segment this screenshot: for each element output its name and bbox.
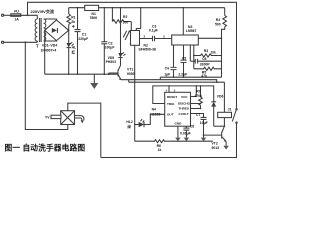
svg-text:SFH506-38: SFH506-38: [139, 47, 156, 51]
svg-text:2: 2: [144, 34, 146, 38]
svg-text:YV: YV: [45, 116, 50, 120]
svg-text:HL: HL: [72, 45, 77, 49]
svg-text:THRES: THRES: [179, 107, 190, 111]
svg-text:FU: FU: [14, 9, 19, 13]
svg-text:VT1: VT1: [127, 67, 133, 71]
svg-text:R4: R4: [216, 18, 220, 22]
svg-text:N4: N4: [152, 108, 156, 112]
svg-text:500: 500: [215, 22, 221, 26]
svg-text:220V/9V交流: 220V/9V交流: [31, 8, 54, 14]
svg-text:DISCHG: DISCHG: [178, 102, 191, 106]
svg-text:OUT: OUT: [167, 112, 174, 116]
svg-text:R1: R1: [71, 15, 75, 19]
svg-text:220μF: 220μF: [78, 37, 88, 41]
svg-text:0.01μF: 0.01μF: [180, 132, 191, 136]
svg-text:RESET: RESET: [167, 95, 177, 99]
svg-text:T: T: [36, 44, 39, 49]
svg-text:C7: C7: [196, 113, 200, 117]
svg-text:VD6: VD6: [217, 95, 224, 99]
svg-text:1A: 1A: [14, 17, 19, 21]
svg-text:VD5: VD5: [108, 56, 115, 60]
svg-text:9013: 9013: [212, 146, 220, 150]
svg-text:R3: R3: [204, 49, 208, 53]
svg-text:300: 300: [123, 21, 129, 25]
svg-text:2.2μF: 2.2μF: [178, 72, 187, 76]
svg-text:10k: 10k: [211, 51, 217, 55]
svg-text:2k: 2k: [71, 20, 75, 24]
svg-text:7806: 7806: [90, 16, 98, 20]
svg-text:C8: C8: [190, 125, 194, 129]
svg-text:470k: 470k: [194, 94, 202, 98]
svg-text:1μF: 1μF: [164, 72, 170, 76]
svg-text:C5: C5: [182, 56, 186, 60]
svg-text:C4: C4: [165, 66, 169, 70]
svg-text:1k: 1k: [158, 148, 162, 152]
svg-text:R2: R2: [123, 15, 127, 19]
svg-text:VCC: VCC: [181, 95, 188, 99]
svg-text:C1: C1: [82, 32, 86, 36]
svg-text:10μF: 10μF: [200, 121, 208, 125]
svg-text:LM567: LM567: [186, 29, 197, 33]
svg-text:HL2: HL2: [126, 120, 133, 124]
svg-text:9050: 9050: [127, 72, 135, 76]
svg-text:1N4007×4: 1N4007×4: [41, 49, 57, 53]
svg-text:R7: R7: [196, 90, 200, 94]
svg-text:J1: J1: [228, 107, 232, 111]
svg-text:CVOLT: CVOLT: [179, 112, 189, 116]
svg-text:3300P: 3300P: [200, 63, 211, 67]
svg-text:TRIG: TRIG: [167, 102, 175, 106]
svg-text:3: 3: [163, 34, 165, 38]
svg-text:C6: C6: [202, 57, 206, 61]
svg-text:图一 自动洗手器电路图: 图一 自动洗手器电路图: [5, 142, 86, 152]
svg-text:0.1μF: 0.1μF: [149, 28, 158, 32]
svg-text:GND: GND: [175, 122, 183, 126]
svg-text:100μF: 100μF: [105, 45, 115, 49]
svg-text:PH303: PH303: [106, 60, 116, 64]
